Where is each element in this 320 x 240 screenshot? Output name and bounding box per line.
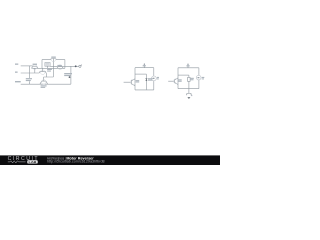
svg-text:LAB: LAB: [29, 160, 38, 164]
svg-text:http://circuitlab.com/c6129a3h: http://circuitlab.com/c6129a3hfbrd8: [47, 160, 105, 164]
